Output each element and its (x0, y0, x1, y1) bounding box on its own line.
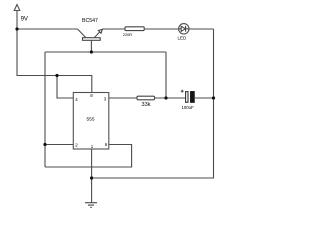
wire base net right vertical (165, 52, 167, 98)
wire cap to right rail (194, 97, 213, 99)
svg-text:BC547: BC547 (82, 18, 98, 24)
transistor Q1 base lead (90, 40, 92, 52)
LED internal wire left (179, 28, 182, 30)
junction 9V node (15, 27, 18, 30)
LED internal wire right (186, 28, 189, 30)
wire pin2/pin6 tie bottom (45, 145, 132, 168)
capacitor C1 negative plate (191, 92, 195, 103)
wire emitter to R 220R (102, 28, 125, 30)
svg-text:9V: 9V (21, 16, 28, 22)
LED D1 circle (179, 24, 189, 34)
svg-text:LED: LED (178, 35, 188, 40)
svg-text:33k: 33k (142, 102, 151, 108)
junction pin2 node (43, 143, 46, 146)
svg-text:555: 555 (87, 117, 95, 123)
ground bar 2 (88, 204, 94, 206)
junction pin1/bottom node (90, 176, 93, 179)
LED D1 cathode bar (185, 26, 187, 32)
transistor Q1 emitter lead (94, 29, 102, 38)
transistor Q1 base bar (83, 38, 101, 41)
wire 33k to cap (155, 97, 186, 99)
svg-text:220R: 220R (123, 32, 132, 37)
wire pin2 (45, 144, 73, 146)
wire pin4 branch (57, 76, 73, 99)
resistor R2 33k body (137, 96, 155, 100)
capacitor C1 positive plate (186, 92, 188, 103)
capacitor C1 plus sign (181, 90, 184, 93)
ground bar 1 (85, 202, 97, 204)
resistor R1 220R body (125, 27, 144, 31)
wire R 220R to LED (144, 28, 178, 30)
wire base net horizontal (45, 51, 166, 53)
junction 33k/cap node (164, 96, 167, 99)
junction base node (90, 50, 93, 53)
power symbol 9V arrow (14, 5, 20, 11)
wire pin3 to 33k (109, 97, 137, 99)
IC U1 555 body (73, 93, 109, 150)
wire base net left vertical (44, 52, 46, 167)
ground bar 3 (90, 206, 92, 208)
LED D1 diode triangle (181, 26, 185, 31)
svg-text:100uF: 100uF (182, 105, 195, 110)
transistor Q1 emitter arrowhead (98, 29, 102, 33)
transistor Q1 collector lead (78, 29, 87, 38)
junction rail/pin4 node (55, 74, 58, 77)
wire pin1 down (91, 149, 93, 203)
wire right rail (92, 29, 214, 178)
wire top rail left (17, 28, 78, 30)
wire 9V stem / left rail (17, 11, 92, 93)
wire LED to right rail (189, 28, 214, 30)
junction cap/right rail node (212, 96, 215, 99)
